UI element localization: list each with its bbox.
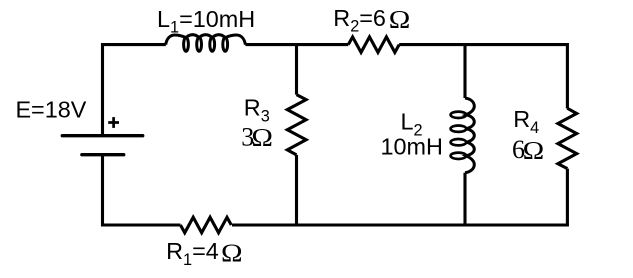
resistor R1 bbox=[180, 217, 231, 233]
wire R3 branch top bbox=[295, 45, 298, 95]
svg-text:Ω: Ω bbox=[523, 136, 545, 164]
svg-text:R1=4: R1=4 bbox=[166, 238, 219, 269]
wire top middle (through node at R3 branch) bbox=[245, 43, 348, 46]
svg-text:E=18V: E=18V bbox=[15, 97, 86, 123]
wire R3 branch bottom bbox=[295, 155, 298, 225]
svg-text:Ω: Ω bbox=[221, 239, 243, 267]
inductor L1 bbox=[166, 35, 246, 52]
svg-text:Ω: Ω bbox=[389, 5, 411, 33]
resistor R4 bbox=[558, 108, 577, 168]
wire right bottom, corner, bottom wire to R1 bbox=[232, 169, 567, 225]
svg-text:R4: R4 bbox=[513, 106, 539, 137]
resistor R3 bbox=[287, 95, 306, 155]
battery E bbox=[62, 117, 142, 155]
wire bottom left, corner, up to battery bottom plate bbox=[103, 155, 181, 225]
svg-text:10mH: 10mH bbox=[381, 134, 443, 160]
svg-text:L1=10mH: L1=10mH bbox=[157, 6, 255, 37]
wire L2 branch bottom bbox=[463, 173, 466, 225]
resistor R2 bbox=[348, 37, 399, 53]
svg-text:R3: R3 bbox=[244, 95, 270, 126]
wire top right, corner, down to R4 bbox=[399, 45, 567, 109]
inductor L2 bbox=[451, 98, 475, 173]
wire left: battery top plate up and across to L1 bbox=[103, 45, 166, 136]
svg-text:R2=6: R2=6 bbox=[333, 5, 386, 36]
svg-text:Ω: Ω bbox=[251, 123, 273, 151]
wire L2 branch top bbox=[463, 45, 466, 98]
